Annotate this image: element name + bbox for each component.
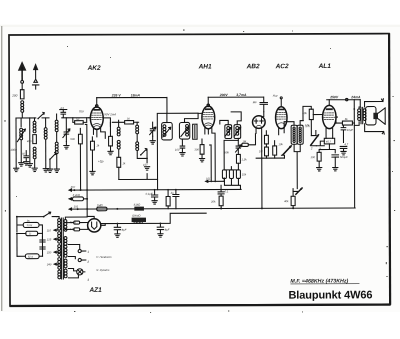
svg-text:207: 207 <box>70 185 76 189</box>
node rail 101 <box>206 177 225 182</box>
earth terminal E <box>32 63 38 89</box>
ground G6 <box>47 169 52 172</box>
svg-text:500µF: 500µF <box>340 156 348 159</box>
tube AC2 <box>273 94 287 129</box>
coil L osc 4 <box>136 134 139 150</box>
resistor R heater b <box>65 226 87 231</box>
svg-text:240: 240 <box>46 263 52 266</box>
wire AK2 anode right <box>103 118 110 127</box>
svg-text:300: 300 <box>194 149 199 152</box>
resistor R 1M diode load <box>242 134 256 147</box>
svg-text:Si 4: Si 4 <box>28 255 33 259</box>
svg-text:4,7: 4,7 <box>344 143 348 146</box>
svg-text:200V: 200V <box>219 93 229 97</box>
ground G2 <box>19 163 24 166</box>
coil L3 <box>33 118 36 133</box>
power transformer secondary heat2 <box>64 259 67 278</box>
wire AH1 pins <box>205 128 215 182</box>
svg-text:100: 100 <box>310 156 315 159</box>
wire divider tops <box>224 167 238 170</box>
wire AK2 pins <box>93 128 105 138</box>
resistor R vol <box>273 141 277 158</box>
resistor R 2,4k rail <box>69 193 88 201</box>
switch S tone arrow <box>293 187 303 194</box>
resistor R div A <box>222 170 226 179</box>
svg-text:10µF: 10µF <box>347 129 354 132</box>
svg-text:AK2: AK2 <box>87 65 101 72</box>
svg-text:250V: 250V <box>329 95 339 99</box>
coil L1 antenna <box>21 101 24 118</box>
resistor R 20k AVC <box>210 196 223 208</box>
wire AC2 pins <box>279 128 285 135</box>
node 157 <box>143 157 148 166</box>
tap 240 <box>46 263 59 266</box>
svg-text:20k: 20k <box>210 200 216 203</box>
ground G1 <box>14 168 19 171</box>
potentiometer P vol arrow <box>278 143 291 158</box>
svg-text:Flut: Flut <box>273 94 278 98</box>
resistor R heater a <box>65 221 87 224</box>
switch box Tr <box>16 231 42 256</box>
svg-text:1,2k: 1,2k <box>241 158 247 161</box>
wire supply bus 200V <box>208 93 264 103</box>
ground G5 <box>43 169 48 172</box>
svg-text:90V 2mA: 90V 2mA <box>104 112 116 116</box>
tap 220 <box>46 251 59 254</box>
coil L5 <box>42 118 49 169</box>
wire divider bottoms <box>224 178 240 189</box>
resistor R sg <box>78 128 82 190</box>
resistor R 300 <box>194 139 204 159</box>
resistor R 400 <box>27 135 37 144</box>
resistor R 30 top <box>112 118 138 124</box>
wire supply 250V <box>327 95 361 107</box>
wire cathode down <box>319 144 335 153</box>
output transformer T4 <box>354 107 366 125</box>
wire AL1 top cap <box>328 100 330 105</box>
svg-text:3,7mA: 3,7mA <box>236 93 247 97</box>
svg-text:2,4kΩ: 2,4kΩ <box>72 193 81 197</box>
wire AH1 cath <box>210 145 212 181</box>
capacitor C trim 4.5 grid <box>60 107 91 118</box>
underline MF note <box>290 283 359 285</box>
capacitor C 2uF <box>170 189 179 209</box>
svg-text:24mA: 24mA <box>350 95 361 99</box>
wire rail 207 <box>69 184 241 191</box>
resistor R 50 <box>73 118 87 124</box>
terminal 1 <box>68 244 89 254</box>
wire output return <box>353 100 355 208</box>
ground G7 <box>54 169 59 172</box>
resistor R cathode 4.7 <box>316 128 334 145</box>
svg-text:100: 100 <box>175 149 180 152</box>
svg-text:0,1: 0,1 <box>225 190 229 193</box>
resistor R 1M bus <box>97 203 107 211</box>
IF transformer T1 can B <box>179 113 202 139</box>
capacitor C trim 50 <box>22 151 29 162</box>
IF transformer T2 can B <box>220 112 242 139</box>
resistor R 200 <box>11 90 24 99</box>
svg-text:10k: 10k <box>278 143 283 146</box>
svg-text:8µF: 8µF <box>122 229 127 232</box>
svg-text:8µF: 8µF <box>165 229 170 232</box>
svg-text:235 V: 235 V <box>111 94 122 98</box>
tap 125 <box>47 238 59 241</box>
svg-text:125: 125 <box>47 238 52 241</box>
tube AH1 <box>202 106 215 129</box>
svg-text:30: 30 <box>127 118 131 121</box>
tube AZ1 rectifier <box>87 216 101 232</box>
svg-text:101: 101 <box>206 177 211 180</box>
tap 110 <box>47 229 59 232</box>
svg-text:1MΩ: 1MΩ <box>97 203 104 207</box>
capacitor C 500uF <box>332 155 348 168</box>
svg-text:50k: 50k <box>224 150 229 154</box>
resistor R 51k block <box>134 203 144 211</box>
ground G14 <box>317 168 322 171</box>
capacitor C padder var <box>150 122 156 136</box>
coil L osc 3 <box>136 122 139 134</box>
tube AK2 <box>79 107 117 130</box>
coil L osc 2 <box>117 140 120 149</box>
potentiometer P grid bias arrow <box>310 131 322 151</box>
wire left column <box>15 118 17 168</box>
choke UEW4 <box>132 214 146 224</box>
svg-text:15k: 15k <box>242 173 247 176</box>
svg-text:AB2: AB2 <box>246 63 260 70</box>
svg-text:AH1: AH1 <box>198 63 212 70</box>
tube AB2 duodiode <box>252 112 265 129</box>
power transformer primary <box>57 217 61 279</box>
svg-text:17k: 17k <box>305 124 310 128</box>
power transformer T5 core <box>61 218 63 279</box>
wire heater line <box>101 213 206 223</box>
capacitor C 100 <box>175 139 185 153</box>
wire pad branch <box>29 118 31 164</box>
terminal 2 <box>68 256 89 264</box>
ground G11 <box>150 141 155 144</box>
switch S1 wave band <box>37 112 44 119</box>
svg-text:N. Dynamo: N. Dynamo <box>96 269 110 272</box>
capacitor C trim IF1 <box>193 124 197 139</box>
wire AK2 top cap <box>96 98 98 107</box>
resistor R det 1 <box>264 131 268 147</box>
resistor R 20k screen <box>166 189 170 209</box>
capacitor C line b <box>40 247 45 249</box>
resistor R div B <box>229 170 233 179</box>
loudspeaker LS <box>365 99 386 134</box>
svg-text:151: 151 <box>74 204 79 208</box>
tube AL1 output <box>323 105 336 128</box>
ground G3 <box>24 162 29 165</box>
coil L osc 1 <box>117 120 120 136</box>
wire AZ1 cathode <box>101 224 105 226</box>
coil L7 <box>55 142 58 169</box>
pilot lamp LP <box>68 268 89 282</box>
wire supply bus 235V <box>97 93 167 113</box>
svg-text:500: 500 <box>70 138 75 141</box>
ground G12 <box>180 153 185 156</box>
svg-text:400: 400 <box>27 140 32 143</box>
wire AH1 top cap <box>207 97 209 106</box>
ground G3b <box>27 164 32 167</box>
resistor R 50k grid AL1 <box>301 106 323 135</box>
wire det bottom rail <box>256 158 284 208</box>
resistor R div C <box>236 170 246 179</box>
wire node antenna bus <box>16 117 36 119</box>
power transformer secondary heat1 <box>64 237 67 258</box>
wire osc bottom <box>119 136 158 179</box>
svg-text:40k: 40k <box>284 200 289 203</box>
svg-text:2: 2 <box>86 260 89 264</box>
svg-text:MF: MF <box>253 100 257 104</box>
svg-text:H. Herabstzn: H. Herabstzn <box>96 256 112 259</box>
resistor R det 2 <box>259 147 269 158</box>
IF transformer T2 can A <box>225 125 232 139</box>
ground G4 <box>32 168 37 171</box>
capacitor C line a <box>40 237 45 242</box>
switch S2 <box>49 153 56 169</box>
svg-text:AL1: AL1 <box>318 63 332 70</box>
capacitor C trim AVC <box>235 138 241 154</box>
resistor R 40k tone <box>284 189 295 209</box>
IF transformer T1 can A <box>162 113 173 140</box>
coil L4 <box>33 147 36 168</box>
fuse box Tr.W <box>17 217 43 257</box>
capacitor C 4,7 tone <box>340 143 348 155</box>
wire AL1 anode pins <box>336 117 337 123</box>
svg-text:51kΩ: 51kΩ <box>134 203 142 207</box>
switch S3 osc <box>137 149 147 163</box>
capacitor C 0,1uF <box>146 189 158 204</box>
capacitor C 8uF b <box>157 222 170 237</box>
svg-text:Tr.W: Tr.W <box>26 223 32 227</box>
svg-text:50: 50 <box>76 118 80 121</box>
resistor R 1,2k <box>236 154 247 169</box>
fuse box Si4 <box>17 254 43 259</box>
ground G15 <box>333 167 338 170</box>
svg-text:AZ1: AZ1 <box>88 287 102 294</box>
resistor R anode <box>90 137 100 172</box>
capacitor C var 500 tuning <box>63 118 76 146</box>
svg-text:40,7: 40,7 <box>326 140 332 143</box>
svg-text:1000: 1000 <box>10 148 17 152</box>
svg-text:ÜW4Ω: ÜW4Ω <box>132 214 141 218</box>
antenna ANT <box>18 61 27 90</box>
wire rail 151 main bus <box>69 203 355 210</box>
svg-text:+Sp: +Sp <box>98 159 104 163</box>
ground G13 <box>199 158 204 161</box>
svg-text:2: 2 <box>310 146 313 150</box>
wire AB2 pins <box>256 128 262 158</box>
resistor R 5k tone <box>336 118 354 125</box>
coil L2 tuned variable <box>10 118 25 163</box>
ground G8 <box>64 146 69 149</box>
power transformer secondary HV <box>64 217 87 231</box>
wire cluster left <box>224 140 238 169</box>
resistor R 100 <box>310 152 321 167</box>
wire IF input line <box>157 113 198 190</box>
ground G10 <box>144 167 149 170</box>
border frame <box>8 33 390 306</box>
resistor R 1M osc <box>117 150 126 180</box>
wire osc feed down <box>85 124 87 216</box>
capacitor C 10uF <box>341 125 353 142</box>
svg-text:18mA: 18mA <box>131 93 141 97</box>
svg-text:200: 200 <box>11 93 17 97</box>
capacitor C 0,1 AVC <box>218 185 229 196</box>
wire AK2 grid to tank <box>88 117 90 119</box>
wire coupling bottom <box>294 144 300 188</box>
svg-text:Blaupunkt 4W66: Blaupunkt 4W66 <box>288 289 372 301</box>
svg-text:110: 110 <box>47 229 52 232</box>
wire mains top <box>16 212 57 218</box>
resistor R osc 3k <box>108 122 113 154</box>
capacitor C MF coupling <box>253 100 268 112</box>
coil L6 <box>55 114 58 142</box>
ground G9 <box>90 171 95 174</box>
svg-text:220: 220 <box>46 251 52 254</box>
capacitor C 8uF a <box>114 223 127 238</box>
svg-text:AC2: AC2 <box>275 63 289 70</box>
coupling transformer T3 <box>284 121 310 145</box>
